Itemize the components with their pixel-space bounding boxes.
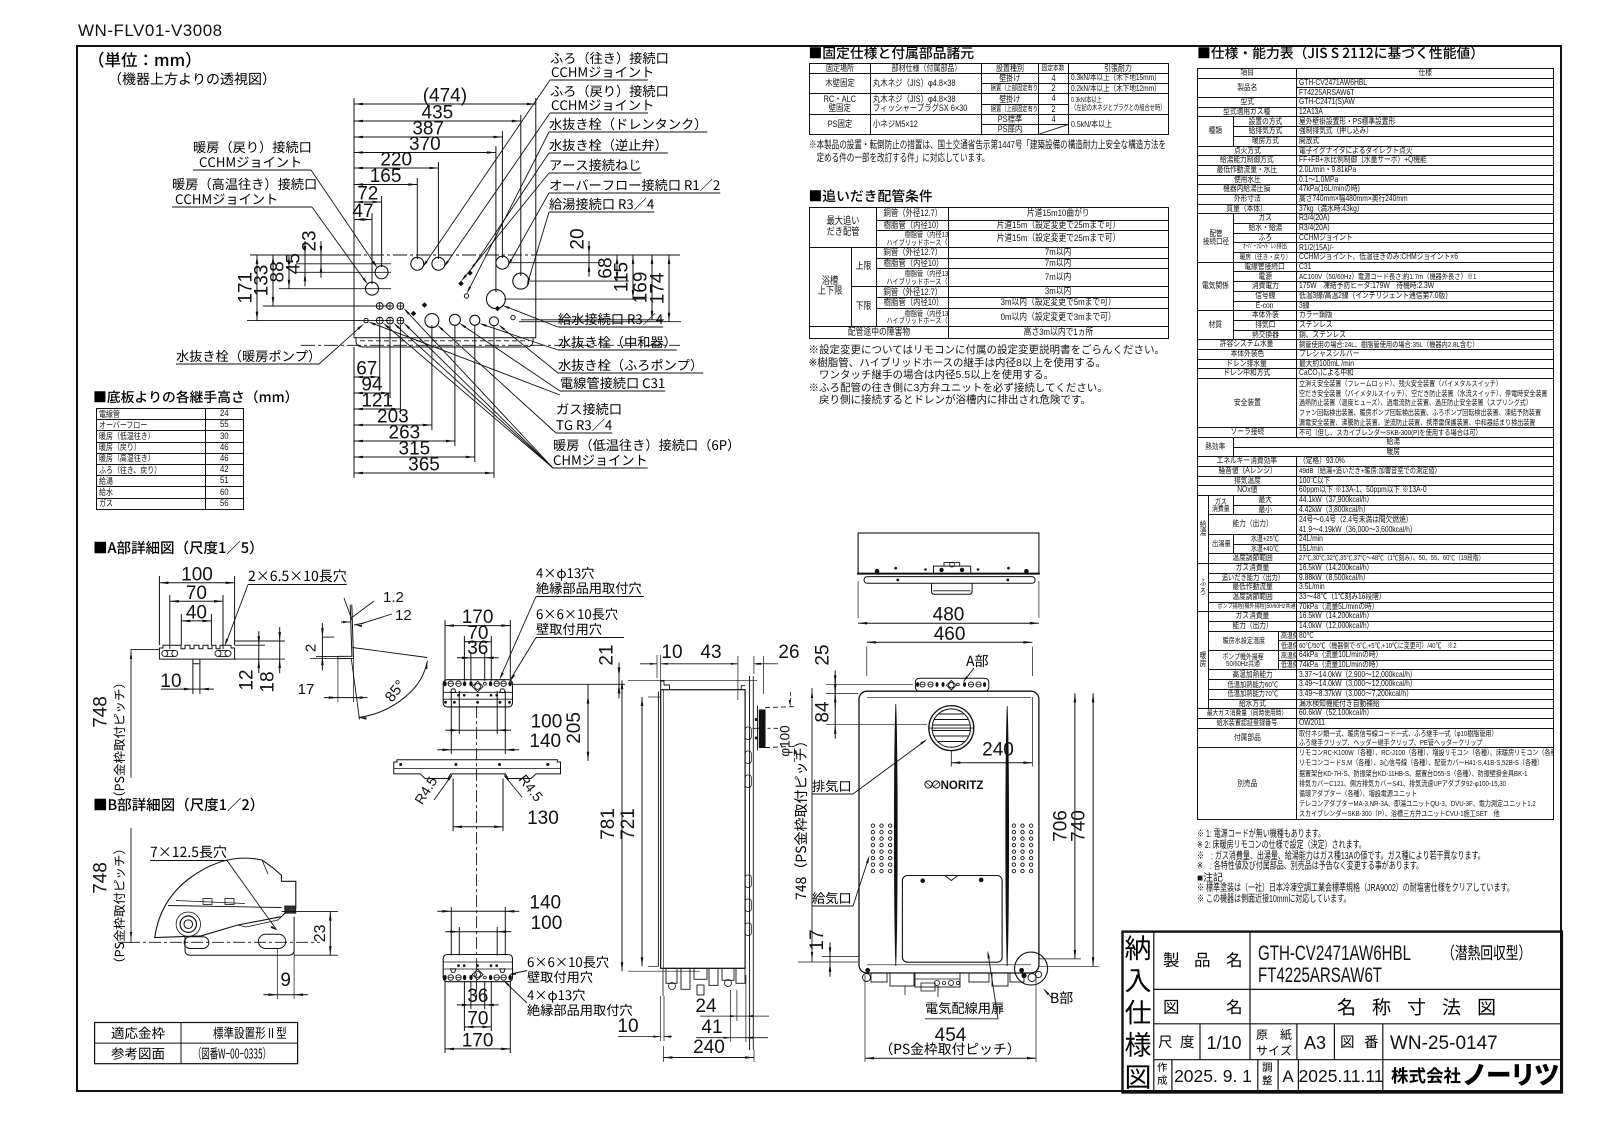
front view: louvre <box>929 706 974 751</box>
svg-text:240: 240 <box>982 740 1014 761</box>
side view: left dims 781/721 <box>628 679 757 681</box>
front view: 454 dim <box>864 975 866 1062</box>
front view: 480/460 dims <box>857 581 859 618</box>
title block: scale row <box>1159 1036 1172 1049</box>
applicable frame table <box>95 1023 298 1064</box>
front view: bottom fittings <box>871 973 887 982</box>
side view: bottom fittings <box>666 968 677 983</box>
svg-text:748: 748 <box>91 696 112 728</box>
front view: 240 dim <box>950 751 952 767</box>
svg-text:47: 47 <box>352 201 373 222</box>
top view: right vertical dimensions <box>536 254 680 256</box>
top plate side bar <box>394 760 561 779</box>
svg-text:41: 41 <box>701 1017 722 1038</box>
B-part heading <box>95 798 255 812</box>
heading: fixing specification table <box>810 46 974 59</box>
A-part bracket front <box>159 645 234 659</box>
svg-text:43: 43 <box>700 642 721 663</box>
svg-text:FT4225ARSAW6T: FT4225ARSAW6T <box>1258 964 1382 987</box>
svg-text:140: 140 <box>529 892 561 913</box>
A-part dims <box>159 582 234 584</box>
svg-text:12: 12 <box>236 669 257 690</box>
front view: top cap view above <box>858 533 1039 574</box>
svg-text:740: 740 <box>1069 810 1090 842</box>
svg-text:85°: 85° <box>382 677 409 705</box>
A-part slot label <box>249 569 347 582</box>
title block: product name row <box>1164 952 1179 967</box>
heading: spec table <box>1198 46 1474 59</box>
top view: unit outline <box>301 255 680 347</box>
svg-text:23: 23 <box>300 230 321 251</box>
front view: body <box>859 691 1039 973</box>
top view: connection ports <box>411 257 424 270</box>
svg-text:20: 20 <box>568 228 589 249</box>
svg-text:174: 174 <box>648 272 669 304</box>
bracket hole labels <box>536 567 594 581</box>
title block: left vertical label <box>1125 935 1150 960</box>
top view: port labels <box>194 141 310 154</box>
front view: NORITZ logo <box>925 781 932 788</box>
svg-text:748: 748 <box>91 862 112 894</box>
front view: labels <box>812 780 850 792</box>
top view: bottom dimensions <box>354 376 380 378</box>
front view: 17 dim <box>822 955 858 957</box>
svg-text:9: 9 <box>280 970 291 991</box>
svg-text:R4.5: R4.5 <box>516 771 547 804</box>
B-part drawing <box>155 858 296 937</box>
lower wall bracket front view <box>443 955 512 982</box>
title block: date row <box>1157 1062 1167 1072</box>
front view: 748 pitch dim <box>811 688 813 962</box>
svg-text:18: 18 <box>257 671 278 692</box>
svg-text:2025.11.11: 2025.11.11 <box>1299 1066 1384 1086</box>
upper bracket dims <box>445 625 510 627</box>
front view: A-part bracket on top <box>915 678 988 691</box>
svg-text:φ100: φ100 <box>778 725 793 756</box>
svg-text:70: 70 <box>467 1008 488 1029</box>
sheet number <box>78 21 223 41</box>
svg-text:140: 140 <box>529 731 561 752</box>
svg-text:781: 781 <box>598 808 619 840</box>
lower bracket dims <box>451 910 505 912</box>
svg-text:A3: A3 <box>1304 1033 1326 1053</box>
B-part 748 dim <box>130 838 132 942</box>
svg-text:10: 10 <box>661 642 682 663</box>
title block frame <box>1123 932 1562 1093</box>
B-part 23 and 9 dims <box>282 911 339 913</box>
svg-text:WN-25-0147: WN-25-0147 <box>1390 1033 1498 1054</box>
drawing unit note <box>99 52 190 68</box>
svg-text:240: 240 <box>693 1037 725 1058</box>
top view: left vertical dimensions <box>250 254 354 256</box>
bottom-plate joint heights table <box>94 390 289 403</box>
svg-text:1/10: 1/10 <box>1206 1033 1241 1053</box>
svg-text:1.2: 1.2 <box>383 589 404 606</box>
svg-text:460: 460 <box>934 624 966 645</box>
svg-text:NORITZ: NORITZ <box>941 780 984 792</box>
svg-text:205: 205 <box>564 712 585 744</box>
side view: exhaust duct (phantom) <box>759 710 765 748</box>
svg-text:25: 25 <box>813 644 834 665</box>
svg-text:17: 17 <box>298 681 315 698</box>
side view: top dims <box>656 655 658 678</box>
svg-text:721: 721 <box>618 808 639 840</box>
svg-text:17: 17 <box>807 929 828 950</box>
svg-text:40: 40 <box>186 602 207 623</box>
side view: bottom dims <box>659 996 661 1041</box>
svg-text:21: 21 <box>597 644 618 665</box>
svg-text:100: 100 <box>531 913 563 934</box>
A-part 748 pitch dim <box>131 648 159 650</box>
side view: right flange and sockets <box>749 676 751 1050</box>
front view: 25/84 dims <box>826 683 913 685</box>
svg-text:A: A <box>1282 1067 1294 1086</box>
title block: NORITZ company logo <box>1391 1067 1460 1084</box>
svg-text:10: 10 <box>617 1016 638 1037</box>
heading A-part detail <box>95 541 254 555</box>
svg-text:130: 130 <box>527 808 559 829</box>
svg-text:70: 70 <box>186 583 207 604</box>
top view: horizontal dimensions <box>354 103 536 105</box>
svg-text:115: 115 <box>612 262 633 292</box>
svg-text:365: 365 <box>408 455 440 476</box>
svg-text:2: 2 <box>303 644 320 652</box>
upper wall bracket front view <box>443 680 512 707</box>
svg-text:84: 84 <box>813 701 834 723</box>
svg-text:26: 26 <box>778 642 799 663</box>
front view: B-part circle <box>1015 952 1048 985</box>
205 and 21 dims (to side view) <box>512 683 625 685</box>
svg-text:100: 100 <box>531 711 563 732</box>
side view: body <box>661 690 745 969</box>
B-part slot label <box>151 845 227 858</box>
svg-text:12: 12 <box>395 607 412 624</box>
svg-text:24: 24 <box>695 996 717 1017</box>
front view: side wedges <box>894 704 897 966</box>
front view: 706/740 dims <box>1039 958 1081 960</box>
svg-text:370: 370 <box>409 134 441 155</box>
svg-text:GTH-CV2471AW6HBL: GTH-CV2471AW6HBL <box>1258 942 1411 965</box>
svg-text:23: 23 <box>312 924 329 942</box>
title block: drawing name row <box>1165 1000 1179 1014</box>
front view: wiring door <box>902 876 1002 963</box>
heading: reheating piping conditions <box>810 189 932 202</box>
svg-text:171: 171 <box>236 272 257 304</box>
PS cell diagonal <box>1040 125 1069 135</box>
130 dim <box>452 779 454 832</box>
svg-text:170: 170 <box>462 1030 494 1051</box>
svg-text:480: 480 <box>933 605 965 626</box>
front view: vent hole grids <box>871 824 874 827</box>
lower bracket labels <box>528 956 609 968</box>
A-part angle side view <box>338 605 354 659</box>
svg-text:2025. 9. 1: 2025. 9. 1 <box>1174 1066 1252 1086</box>
